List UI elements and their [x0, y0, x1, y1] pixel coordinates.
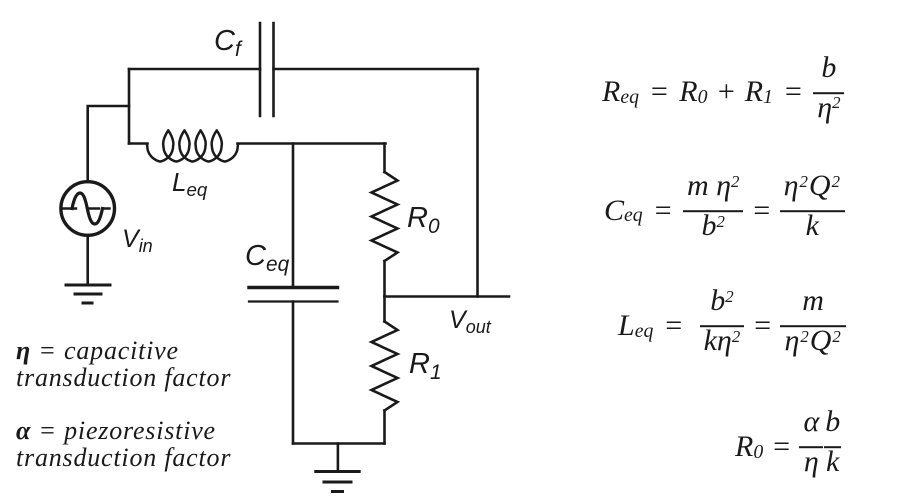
wire Ceq to bottom: [292, 302, 295, 444]
equation L_eq = b^2/(k eta^2) = m/(eta^2 Q^2): [618, 286, 846, 366]
source dashed centerline: [64, 207, 110, 209]
note eta = capacitive transduction factor: [16, 337, 231, 392]
wire top-left horizontal (to Cf left plate): [129, 68, 260, 71]
note alpha = piezoresistive transduction factor: [16, 417, 231, 472]
wire R0 top lead: [383, 144, 386, 173]
wire right branch vertical: [476, 69, 479, 297]
wire bottom horizontal: [293, 442, 385, 445]
wire R0 bottom lead: [383, 261, 386, 297]
label L_eq: [172, 169, 207, 195]
source V_in circle: [61, 182, 115, 236]
wire Vout horizontal: [385, 295, 510, 298]
label C_f: [214, 27, 241, 56]
ground (under source): [66, 285, 110, 303]
capacitor C_f left plate: [259, 23, 262, 116]
wire Ceq branch vertical: [292, 144, 295, 288]
equation R_eq = R_0 + R_1 = b/eta^2: [602, 53, 844, 133]
capacitor C_eq bottom plate: [249, 300, 338, 302]
capacitor C_eq top plate: [249, 286, 338, 289]
wire ground stub: [337, 444, 340, 472]
source sine wave: [72, 193, 103, 224]
ground (bottom): [316, 472, 359, 492]
label V_in: [122, 227, 153, 252]
label R_1: [409, 350, 442, 379]
inductor L_eq coil: [147, 130, 238, 161]
label C_eq: [245, 242, 289, 271]
wire R1 bottom lead: [383, 411, 386, 444]
capacitor C_f right plate: [272, 23, 275, 116]
wire top-right horizontal (Cf right plate to right branch): [274, 68, 479, 71]
label R_0: [407, 204, 440, 233]
resistor R0: [372, 172, 398, 261]
equation C_eq = m eta^2 / b^2 = eta^2 Q^2 / k: [604, 171, 845, 251]
wire left vertical (top wire down to inductor): [128, 69, 131, 144]
equation R_0 = (alpha/eta)(b/k): [735, 407, 841, 487]
wire source to ground: [86, 235, 89, 285]
wire jog to source: [88, 106, 129, 182]
wire inductor left lead: [129, 142, 148, 145]
label V_out: [449, 308, 491, 333]
resistor R1: [372, 322, 398, 411]
wire R1 top lead: [383, 297, 386, 322]
wire inductor to R0: [238, 142, 386, 145]
